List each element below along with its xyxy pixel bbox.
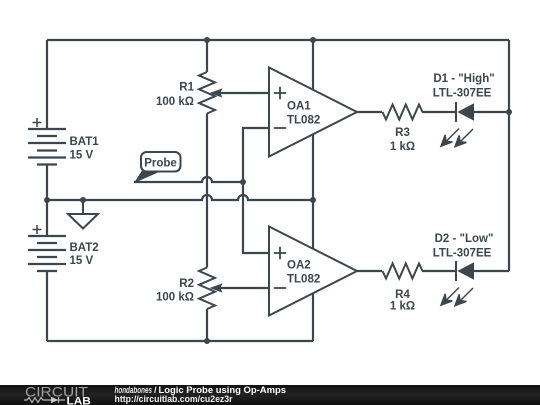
wire probe net bbox=[134, 177, 243, 182]
svg-text:OA1: OA1 bbox=[287, 101, 311, 113]
svg-text:BAT2: BAT2 bbox=[70, 242, 99, 254]
wire R3 to D1 bbox=[422, 111, 455, 113]
wire D2 anode bbox=[473, 270, 509, 272]
OA2 non-inverting input plus mark bbox=[274, 247, 286, 260]
node ground junction bbox=[80, 197, 86, 203]
svg-text:OA2: OA2 bbox=[287, 260, 311, 272]
svg-text:1 kΩ: 1 kΩ bbox=[390, 301, 415, 313]
node OA1 V+ junction bbox=[310, 37, 316, 43]
wire R2 wiper to OA2 bbox=[220, 287, 269, 289]
LED D2 light arrows bbox=[441, 288, 473, 306]
battery BAT1 bbox=[28, 129, 66, 165]
svg-text:R3: R3 bbox=[395, 127, 410, 139]
wire OA2 output bbox=[357, 270, 382, 272]
node D1 anode junction bbox=[506, 109, 512, 115]
OA2 inverting input minus mark bbox=[274, 287, 286, 289]
svg-text:D2 - "Low": D2 - "Low" bbox=[435, 233, 494, 245]
svg-text:http://circuitlab.com/cu2ez3r: http://circuitlab.com/cu2ez3r bbox=[115, 393, 233, 404]
svg-text:TL082: TL082 bbox=[287, 274, 320, 286]
resistor R2 (pot body) bbox=[199, 268, 215, 310]
wire R1 top stem bbox=[206, 40, 208, 72]
wire left rail upper bbox=[46, 40, 48, 129]
wire BAT1 bottom to mid rail bbox=[46, 165, 48, 201]
wire OA1 V- / OA2 V+ pins bbox=[312, 134, 314, 249]
svg-text:100 kΩ: 100 kΩ bbox=[156, 96, 194, 108]
op-amp OA1 bbox=[269, 68, 357, 157]
BAT2 plus terminal mark bbox=[33, 225, 42, 234]
wire top rail bbox=[47, 39, 509, 41]
node R2 bottom junction bbox=[204, 338, 210, 344]
wire BAT2 bottom to bottom rail bbox=[46, 272, 48, 342]
svg-text:Probe: Probe bbox=[144, 158, 177, 170]
svg-text:15 V: 15 V bbox=[70, 150, 94, 162]
wire OA1 V+ pin bbox=[312, 40, 314, 89]
svg-text:15 V: 15 V bbox=[70, 255, 94, 267]
LED D2 triangle bbox=[457, 262, 474, 279]
svg-text:TL082: TL082 bbox=[287, 115, 320, 127]
svg-text:1 kΩ: 1 kΩ bbox=[390, 141, 415, 153]
svg-text:LTL-307EE: LTL-307EE bbox=[433, 247, 492, 259]
wire D1 anode bbox=[473, 111, 509, 113]
footer bar bbox=[0, 385, 540, 405]
wire BAT2 top bbox=[46, 200, 48, 236]
node mid rail right junction bbox=[310, 197, 316, 203]
BAT1 plus terminal mark bbox=[33, 118, 42, 127]
R1 wiper arrow bbox=[210, 88, 223, 97]
svg-text:LAB: LAB bbox=[67, 395, 92, 405]
node R1 top junction bbox=[204, 37, 210, 43]
resistor R1 (pot body) bbox=[199, 72, 215, 114]
svg-text:D1 - "High": D1 - "High" bbox=[433, 73, 494, 85]
node Probe flag tail bbox=[134, 171, 158, 184]
wire R2 bottom stem bbox=[206, 309, 208, 341]
svg-text:R2: R2 bbox=[179, 278, 194, 290]
R2 wiper arrow bbox=[210, 283, 223, 292]
wire OA1 output bbox=[357, 111, 382, 113]
battery BAT2 bbox=[28, 236, 66, 271]
LED D1 cathode bar bbox=[455, 102, 457, 122]
LED D2 cathode bar bbox=[455, 261, 457, 281]
svg-text:BAT1: BAT1 bbox=[70, 136, 100, 148]
wire mid rail with hops bbox=[47, 195, 313, 200]
wire OA1 inverting input bbox=[243, 128, 269, 182]
LED D1 triangle bbox=[457, 103, 474, 120]
wire R1 wiper to OA1 bbox=[220, 92, 269, 94]
node Probe flag box bbox=[141, 152, 181, 172]
wire R4 to D2 bbox=[422, 270, 455, 272]
wire R1 to R2 link bbox=[206, 114, 208, 268]
svg-text:LTL-307EE: LTL-307EE bbox=[433, 87, 492, 99]
ground bbox=[68, 200, 98, 229]
LED D1 light arrows bbox=[441, 129, 473, 147]
wire right rail bbox=[508, 40, 510, 271]
node probe junction bbox=[240, 179, 246, 185]
wire OA2 non-inverting input bbox=[243, 182, 269, 253]
op-amp OA2 bbox=[269, 227, 357, 316]
wire bottom rail bbox=[47, 340, 313, 342]
logo resistor-diode line art bbox=[24, 397, 65, 403]
resistor R3 bbox=[383, 105, 423, 120]
resistor R4 bbox=[383, 264, 423, 279]
OA1 non-inverting input plus mark bbox=[274, 87, 286, 100]
node mid rail left junction bbox=[44, 197, 50, 203]
svg-text:R1: R1 bbox=[179, 82, 194, 94]
svg-text:R4: R4 bbox=[395, 289, 410, 301]
svg-text:100 kΩ: 100 kΩ bbox=[156, 292, 194, 304]
wire OA2 V- pin bbox=[312, 293, 314, 341]
OA1 inverting input minus mark bbox=[274, 127, 286, 129]
